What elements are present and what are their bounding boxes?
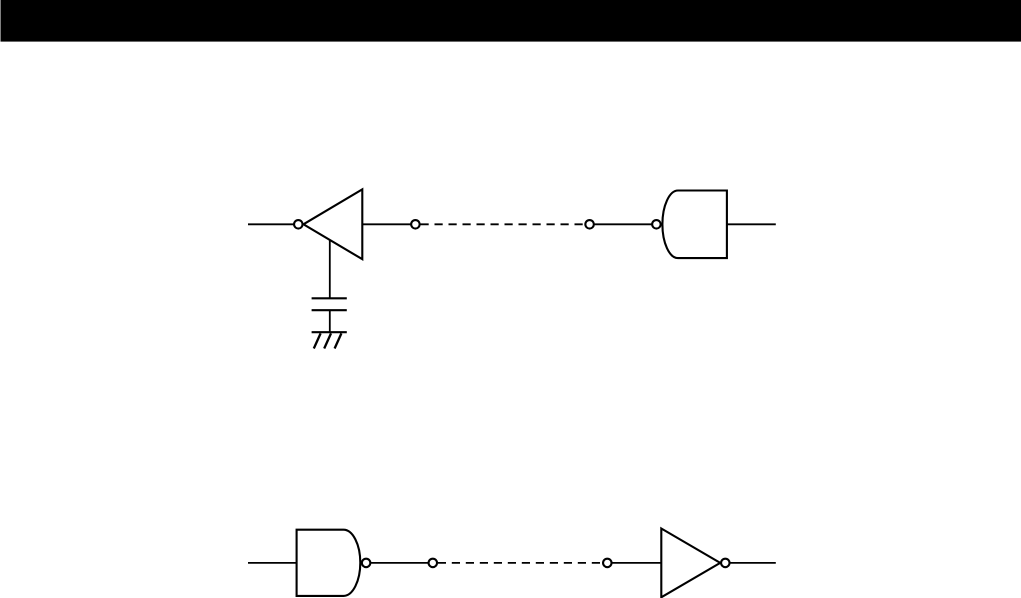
wire (U1 to capacitor C1) [329,240,331,298]
wire (dashed link node A to node B) [421,223,586,225]
wire (node B to gate U2) [594,223,653,225]
wire (inverter U1 input) [248,223,294,225]
wire (U2 output) [727,223,776,225]
wire (U3 output to node C) [371,562,429,564]
node A [411,220,420,229]
node C [429,559,438,568]
wire (C1 to ground) [329,310,331,332]
capacitor C1 [312,298,347,310]
and-gate U2 (left-facing, input bubble) [652,191,727,259]
node B [585,220,594,229]
wire (U1 output to node A) [362,223,411,225]
header bar [1,0,1021,42]
inverter U4 (right-facing triangle with output bubble) [661,529,729,598]
wire (node D to inverter U4) [612,562,662,564]
wire (nand U3 input) [248,562,297,564]
wire (U4 output) [730,562,776,564]
node D [603,559,612,568]
wire (dashed link node C to node D) [438,562,603,564]
inverter U1 (left-facing triangle with input bubble) [294,189,362,259]
ground [312,332,347,348]
nand-gate U3 (right-facing with output bubble) [297,530,371,596]
